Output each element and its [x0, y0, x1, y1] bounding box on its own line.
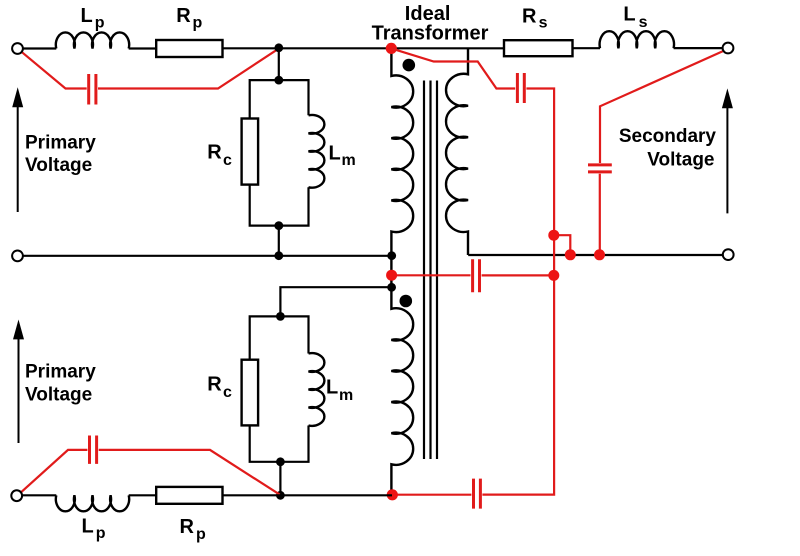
- transformer right winding (secondary): [446, 48, 468, 255]
- capacitor plates (red, middle): [473, 259, 480, 292]
- svg-text:c: c: [223, 152, 232, 169]
- wire Lp to Rp (bottom): [129, 494, 157, 496]
- terminal bottom-left: [11, 490, 22, 501]
- node red on bus: [548, 230, 559, 241]
- inductor Lp (bottom primary): [56, 495, 129, 511]
- svg-text:p: p: [193, 15, 203, 32]
- wire top rail left (terminal to Lp): [23, 47, 56, 49]
- inductor Ls: [600, 31, 674, 48]
- resistor Rs: [504, 40, 573, 56]
- node red on bottom rail: [387, 489, 398, 500]
- wire red mid capacitor line: [392, 274, 471, 276]
- svg-text:Primary: Primary: [25, 362, 96, 383]
- capacitor (red, bottom primary winding capacitance) wire left diagonal: [21, 450, 87, 492]
- wire parallel bottom to bottom rail: [279, 462, 281, 496]
- terminal top-left: [12, 43, 23, 54]
- resistor Rc (bottom): [242, 360, 259, 426]
- wire red to junction node (top primary): [98, 49, 278, 88]
- svg-text:Primary: Primary: [25, 133, 96, 154]
- resistor Rp (top primary): [156, 40, 222, 57]
- terminal top-right: [723, 43, 734, 54]
- svg-text:Secondary: Secondary: [619, 126, 717, 147]
- capacitor (red, top primary winding capacitance) wire left diagonal: [22, 52, 87, 89]
- svg-text:Voltage: Voltage: [647, 149, 714, 170]
- wire red vertical bus right: [482, 89, 554, 495]
- svg-text:L: L: [81, 5, 93, 27]
- node red on primary winding rail: [386, 270, 397, 281]
- terminal mid-right: [723, 249, 734, 260]
- svg-text:R: R: [180, 516, 195, 538]
- svg-text:L: L: [82, 515, 94, 537]
- svg-text:L: L: [329, 143, 341, 165]
- svg-text:L: L: [623, 4, 635, 26]
- wire mid rail right: [468, 254, 723, 256]
- transformer core lines: [424, 81, 437, 460]
- node junction on top rail: [274, 43, 283, 52]
- wire red secondary shunt lower: [599, 174, 601, 255]
- svg-text:s: s: [639, 14, 648, 31]
- resistor Rc (top): [242, 119, 259, 185]
- svg-text:p: p: [96, 525, 106, 542]
- node on bottom rail below parallel: [276, 491, 285, 500]
- wire bottom rail to winding: [223, 494, 393, 496]
- svg-text:R: R: [207, 374, 222, 396]
- resistor Rp (bottom primary): [156, 487, 222, 504]
- capacitor plates (red, top primary): [89, 74, 96, 105]
- svg-text:R: R: [176, 5, 191, 27]
- inductor Lm (bottom): [309, 353, 325, 426]
- node mid rail meets primary winding: [387, 251, 396, 260]
- parallel frame rails Rc/Lm (bottom): [250, 316, 309, 461]
- polarity dot upper primary: [403, 59, 416, 72]
- capacitor plates (red, bottom): [474, 479, 481, 509]
- wire elbow lower parallel to winding: [280, 287, 391, 316]
- node on mid rail below parallel: [274, 251, 283, 260]
- capacitor plates (red, near Rs): [517, 73, 524, 103]
- arrow primary voltage (top): [17, 98, 19, 212]
- inductor Lm (top): [309, 115, 325, 188]
- svg-text:Voltage: Voltage: [25, 155, 92, 176]
- node lower winding tap: [387, 283, 396, 292]
- svg-text:p: p: [95, 15, 105, 32]
- transformer left winding (both primaries): [391, 48, 413, 494]
- svg-text:c: c: [223, 384, 232, 401]
- inductor Lp (top primary): [56, 32, 129, 48]
- svg-text:m: m: [342, 152, 356, 169]
- wire red bottom capacitor to bottom rail node: [393, 494, 471, 496]
- node top of parallel (bottom): [276, 312, 285, 321]
- parallel frame rails Rc/Lm (top): [250, 80, 309, 226]
- svg-text:Transformer: Transformer: [372, 22, 489, 44]
- wire top rail (Rp to Rs): [223, 47, 505, 49]
- wire Lp to Rp: [129, 47, 157, 49]
- wire red from top node to secondary capacitor: [391, 48, 515, 88]
- wire Rs to Ls: [573, 47, 601, 49]
- wire red mid capacitor to bus: [482, 274, 554, 276]
- node red secondary shunt on mid rail: [594, 249, 605, 260]
- svg-text:Voltage: Voltage: [25, 384, 92, 405]
- svg-text:L: L: [326, 377, 338, 399]
- wire red to junction node (bottom primary): [99, 450, 280, 495]
- svg-text:R: R: [207, 142, 222, 164]
- svg-text:p: p: [196, 526, 206, 543]
- wire red secondary shunt branch: [600, 51, 723, 163]
- red dot node on top rail at primary winding: [386, 43, 397, 54]
- wire red step to mid rail: [554, 235, 571, 255]
- node red on mid rail: [565, 249, 576, 260]
- terminal mid-left: [12, 251, 23, 262]
- wire Ls to secondary top terminal: [674, 47, 723, 49]
- capacitor plates (red, bottom primary): [90, 436, 97, 464]
- arrow primary voltage (bottom): [18, 330, 20, 443]
- svg-text:s: s: [539, 15, 548, 32]
- node red bus meets mid capacitor: [548, 270, 559, 281]
- node bottom of parallel (top): [274, 221, 283, 230]
- wire bottom rail left: [21, 494, 56, 496]
- svg-text:m: m: [339, 387, 353, 404]
- polarity dot lower primary: [400, 295, 413, 308]
- wire parallel bottom to mid rail: [278, 226, 280, 256]
- wire junction down to parallel Rc/Lm (top): [278, 48, 280, 80]
- svg-text:R: R: [522, 6, 537, 28]
- node bottom of parallel (bottom): [276, 457, 285, 466]
- arrow secondary voltage: [726, 106, 728, 213]
- wire mid rail left: [23, 255, 392, 257]
- node top of parallel (top): [274, 76, 283, 85]
- capacitor plates (red, secondary shunt): [588, 165, 612, 172]
